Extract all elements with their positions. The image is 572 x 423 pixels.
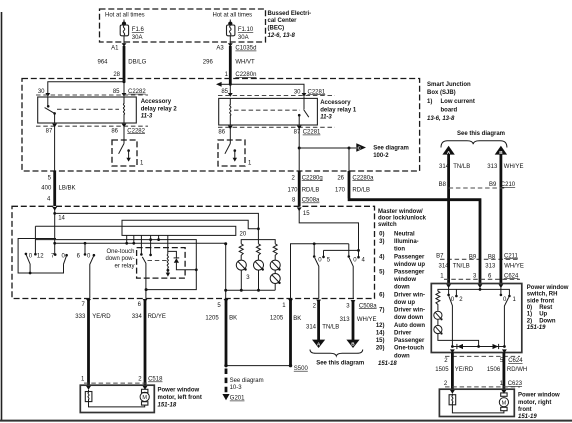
svg-text:See diagram: See diagram	[373, 145, 409, 151]
pin6 exit arrow	[143, 299, 148, 303]
arrow A (from other diagram)	[442, 146, 454, 155]
svg-text:2): 2)	[527, 318, 532, 324]
svg-text:side front: side front	[527, 298, 554, 304]
svg-text:314: 314	[306, 325, 317, 331]
svg-text:13-6, 13-8: 13-6, 13-8	[427, 116, 455, 122]
pin7 exit arrow	[86, 299, 91, 303]
svg-text:(BEC): (BEC)	[268, 26, 285, 32]
svg-text:TN/LB: TN/LB	[322, 325, 339, 331]
svg-text:C2280n: C2280n	[235, 72, 256, 78]
svg-text:RD/LB: RD/LB	[302, 187, 320, 193]
svg-text:cal Center: cal Center	[268, 18, 298, 24]
svg-text:B: B	[499, 150, 503, 155]
svg-text:TN/LB: TN/LB	[453, 264, 470, 270]
relay2 solid state box	[112, 140, 144, 167]
svg-text:BK: BK	[293, 316, 301, 322]
svg-text:C2282: C2282	[128, 89, 146, 95]
wire switch1 contact feed	[35, 225, 122, 227]
resistor branch 1	[236, 244, 250, 292]
one-touch relay link dashed	[148, 260, 168, 262]
svg-text:LB/BK: LB/BK	[59, 186, 76, 192]
connector line C624 top	[444, 278, 520, 280]
svg-text:See this diagram: See this diagram	[457, 131, 505, 137]
svg-text:WH/VT: WH/VT	[235, 59, 255, 65]
svg-text:Passenger: Passenger	[394, 270, 425, 276]
wires C211 to C624	[438, 253, 523, 284]
svg-text:314: 314	[438, 264, 449, 270]
svg-text:Bussed Electri-: Bussed Electri-	[268, 11, 312, 17]
master window switch dashed box	[12, 206, 375, 298]
connector row C211	[436, 253, 520, 260]
svg-text:85: 85	[113, 89, 120, 95]
motor left M	[140, 389, 149, 405]
arrow A (to other diagram)	[312, 340, 325, 348]
svg-text:A3: A3	[216, 46, 224, 52]
motor left circuit breaker	[85, 390, 92, 402]
svg-text:86: 86	[218, 130, 225, 136]
svg-text:Accessory: Accessory	[320, 100, 351, 106]
svg-text:151-18: 151-18	[378, 361, 397, 367]
svg-text:Neutral: Neutral	[394, 231, 415, 237]
relay1 coil	[230, 98, 231, 125]
svg-text:Passenger: Passenger	[394, 338, 425, 344]
svg-text:Power window: Power window	[527, 285, 569, 291]
one-touch relay dashed box	[137, 248, 186, 279]
svg-text:C624: C624	[504, 273, 519, 279]
svg-text:170: 170	[335, 187, 346, 193]
wire 1505 YE/RD	[435, 353, 474, 390]
svg-text:C623: C623	[508, 381, 523, 387]
svg-text:TN/LB: TN/LB	[453, 164, 470, 170]
svg-text:15: 15	[303, 211, 310, 217]
svg-text:door lock/unlock: door lock/unlock	[378, 216, 427, 222]
svg-text:85: 85	[221, 89, 228, 95]
LED rail	[241, 240, 275, 244]
one-touch relay diode loop	[168, 251, 197, 269]
svg-text:Driver win-: Driver win-	[394, 292, 425, 298]
svg-text:C211: C211	[504, 253, 519, 259]
svg-text:1): 1)	[527, 312, 532, 318]
svg-text:313: 313	[340, 317, 351, 323]
svg-text:12): 12)	[376, 323, 385, 329]
svg-text:delay relay 1: delay relay 1	[320, 107, 357, 113]
svg-text:15): 15)	[376, 338, 385, 344]
svg-text:er relay: er relay	[114, 264, 134, 270]
arrow B (from other diagram)	[495, 146, 507, 155]
svg-text:28: 28	[113, 72, 120, 78]
power window switch RH box	[431, 284, 522, 353]
svg-text:Up: Up	[539, 312, 547, 318]
RH diode line	[451, 345, 506, 348]
relay1 solid state box	[218, 140, 252, 167]
pin1 BK column and rest rail	[291, 242, 349, 298]
svg-text:C210: C210	[501, 182, 516, 188]
wire fuse2 to relay1 pin30	[230, 84, 326, 97]
brace see this diagram (bottom)	[310, 350, 363, 357]
svg-text:0): 0)	[527, 305, 532, 311]
svg-text:down: down	[394, 353, 410, 359]
svg-text:30A: 30A	[238, 35, 249, 41]
LED ground rail	[226, 289, 276, 291]
label power window motor left front	[158, 388, 202, 409]
motor right internal wire	[452, 405, 504, 413]
svg-text:Power window: Power window	[158, 388, 200, 394]
arrow B (to other diagram)	[346, 340, 359, 348]
svg-text:151-18: 151-18	[158, 402, 177, 408]
svg-text:333: 333	[75, 314, 86, 320]
svg-text:WH/YE: WH/YE	[357, 317, 377, 323]
svg-text:C2282: C2282	[127, 128, 145, 134]
svg-text:0): 0)	[379, 231, 384, 237]
power window motor right front box	[439, 389, 514, 416]
svg-text:Accessory: Accessory	[141, 99, 172, 105]
ground lead to G201	[222, 369, 263, 402]
wire 313 WH/YE (B down to C211)	[487, 155, 523, 253]
pin4 entry arrow	[52, 207, 57, 211]
svg-text:Driver win-: Driver win-	[394, 308, 425, 314]
svg-text:YE/RD: YE/RD	[455, 367, 474, 373]
pin3 exit arrow	[351, 300, 356, 304]
relay2 link dashed	[57, 108, 119, 110]
svg-text:313: 313	[485, 264, 496, 270]
svg-text:170: 170	[287, 187, 298, 193]
switch 3 (driver up 6/0)	[77, 243, 96, 298]
svg-text:board: board	[441, 108, 458, 114]
plate stubs	[127, 235, 168, 254]
svg-text:B8: B8	[439, 182, 447, 188]
svg-text:C2280g: C2280g	[302, 175, 323, 181]
svg-text:6): 6)	[379, 292, 384, 298]
accessory delay relay 2 box	[38, 97, 137, 123]
svg-text:7): 7)	[379, 308, 384, 314]
svg-text:20: 20	[240, 231, 247, 237]
svg-text:window up: window up	[393, 262, 425, 268]
svg-text:A1: A1	[111, 46, 119, 52]
svg-text:C508a: C508a	[359, 303, 377, 309]
connector row C2281 top	[218, 95, 335, 97]
wire relay1 pin85 tee with left arrow	[216, 82, 232, 95]
svg-text:Driver: Driver	[394, 331, 412, 337]
svg-text:BK: BK	[229, 316, 237, 322]
label power window motor right front	[518, 393, 560, 421]
connector line C623	[445, 386, 520, 388]
svg-text:4): 4)	[379, 254, 384, 260]
wire 170 RD/LB C2280g down to master pin15	[287, 148, 322, 207]
RH switch left (0/2)	[447, 288, 463, 347]
svg-text:window: window	[393, 277, 416, 283]
motor right M	[499, 393, 508, 411]
node relay1-87 junction	[298, 147, 301, 150]
motor right entry arrows	[450, 390, 455, 394]
wire fuse1 to relay2 pin30	[38, 80, 126, 97]
fuse F1.10 30A	[227, 20, 254, 43]
svg-text:151-19: 151-19	[518, 414, 537, 420]
relay2 pin86 exit	[111, 124, 145, 144]
svg-text:Power window: Power window	[518, 393, 560, 399]
svg-text:1505: 1505	[435, 367, 449, 373]
relay2 coil	[123, 97, 124, 123]
contact plate outer lid	[122, 220, 258, 229]
svg-text:400: 400	[41, 186, 52, 192]
svg-text:1205: 1205	[205, 316, 219, 322]
pin5 exit arrow	[224, 299, 229, 303]
pin1 exit arrow	[288, 299, 293, 303]
svg-text:switch: switch	[378, 222, 397, 228]
svg-text:See this diagram: See this diagram	[316, 361, 364, 367]
contact plate inner	[122, 226, 236, 235]
RH resistor	[436, 291, 440, 311]
power distribution line	[55, 242, 226, 245]
svg-text:C1035d: C1035d	[235, 46, 256, 52]
connector line C518	[84, 382, 147, 384]
label Bussed Electrical Center (BEC)	[268, 11, 312, 39]
svg-text:10-3: 10-3	[230, 385, 243, 391]
one-touch relay contact and blade	[140, 253, 152, 298]
label one-touch down power relay	[105, 249, 134, 270]
wire 964 DB/LG from F1.6	[97, 42, 146, 97]
switch 2 (driver down 7/0)	[51, 254, 68, 265]
svg-text:C518: C518	[148, 377, 163, 383]
svg-text:Master window/: Master window/	[378, 209, 423, 215]
svg-text:Auto down: Auto down	[394, 323, 425, 329]
svg-text:G201: G201	[230, 396, 245, 402]
pin15 entry arrow	[297, 207, 302, 211]
svg-text:F1.10: F1.10	[238, 27, 254, 33]
ground distribution line	[35, 238, 197, 291]
svg-text:B9: B9	[489, 182, 497, 188]
wire 1205 BK right	[270, 299, 301, 366]
svg-text:delay relay 2: delay relay 2	[141, 106, 178, 112]
wire 296 WH/VT from F1.10	[203, 42, 257, 97]
svg-text:11-3: 11-3	[320, 115, 332, 121]
resistor branch 2 LED	[254, 244, 264, 292]
svg-text:F1.6: F1.6	[132, 27, 145, 33]
svg-text:Rest: Rest	[539, 305, 552, 311]
relay2 switch contact	[45, 97, 56, 124]
svg-text:Passenger: Passenger	[394, 254, 425, 260]
svg-text:dow down: dow down	[394, 315, 424, 321]
svg-text:100-2: 100-2	[373, 153, 389, 159]
svg-text:Box (SJB): Box (SJB)	[427, 90, 456, 96]
svg-text:30A: 30A	[132, 35, 143, 41]
relay1 link dashed	[234, 109, 300, 111]
wire 334 RD/YE	[132, 299, 166, 385]
RH LED 1	[434, 311, 443, 320]
fuse F1.6 30A	[120, 20, 144, 43]
label Smart Junction Box (SJB)	[427, 82, 475, 122]
svg-text:14: 14	[58, 215, 65, 221]
svg-text:5): 5)	[379, 270, 384, 276]
switch bank box	[18, 239, 63, 274]
svg-text:14): 14)	[376, 331, 385, 337]
motor left internal wire	[89, 402, 145, 407]
svg-text:M: M	[502, 401, 507, 407]
svg-text:151-19: 151-19	[527, 325, 546, 331]
label Accessory delay relay 1	[320, 100, 357, 120]
wire 314 TN/LB (A down to C211)	[439, 155, 471, 253]
svg-text:switch, RH: switch, RH	[527, 292, 558, 298]
svg-text:One-touch: One-touch	[106, 249, 134, 255]
svg-text:1506: 1506	[487, 367, 501, 373]
RH switch right (0/1)	[500, 288, 517, 347]
svg-text:DB/LG: DB/LG	[128, 59, 146, 65]
svg-text:86: 86	[111, 128, 118, 134]
relay1 switch contact	[298, 97, 309, 126]
label Master window door lock/unlock switch	[376, 209, 427, 367]
svg-text:motor, left front: motor, left front	[158, 395, 202, 401]
RH exit arrows	[450, 349, 455, 353]
wire 333 YE/RD	[75, 299, 111, 385]
power window motor left front box	[80, 385, 154, 412]
switch A (passenger 0/5)	[313, 244, 331, 299]
svg-text:30: 30	[38, 89, 45, 95]
svg-text:RD/WH: RD/WH	[507, 367, 527, 373]
svg-text:C2280a: C2280a	[352, 175, 374, 181]
wire 314 TN/LB to arrow A	[306, 300, 339, 340]
svg-text:dow up: dow up	[394, 300, 415, 306]
connector row C2282 bottom	[36, 125, 148, 127]
svg-text:Low current: Low current	[441, 99, 475, 105]
svg-text:Smart Junction: Smart Junction	[427, 82, 471, 88]
wire 313 WH/YE to arrow B	[340, 300, 378, 340]
pin2 exit arrow	[316, 300, 321, 304]
svg-text:C508a: C508a	[302, 198, 320, 204]
Smart Junction Box dashed outline	[22, 79, 420, 172]
RH diode right (points right)	[493, 344, 499, 349]
svg-text:C2281: C2281	[303, 130, 321, 136]
svg-text:WH/YE: WH/YE	[504, 164, 524, 170]
page bottom border	[0, 420, 572, 422]
svg-text:313: 313	[487, 164, 498, 170]
bracket over A B	[441, 141, 507, 148]
svg-text:964: 964	[97, 59, 108, 65]
svg-text:3): 3)	[379, 239, 384, 245]
svg-text:motor, right: motor, right	[518, 400, 551, 406]
switch B (passenger 0/4)	[348, 244, 366, 299]
connector row C2281 bottom	[218, 126, 335, 128]
svg-text:26: 26	[337, 175, 344, 181]
svg-text:C624: C624	[508, 358, 523, 364]
svg-text:296: 296	[203, 59, 214, 65]
connector line C210	[449, 187, 505, 189]
svg-text:12: 12	[37, 254, 44, 260]
RH LED 2	[434, 320, 479, 347]
power jog from pin15	[299, 210, 360, 259]
page left border	[1, 12, 3, 420]
svg-text:Hot at all times: Hot at all times	[105, 13, 145, 19]
wire pin4 column	[53, 210, 56, 256]
Bussed Electrical Center box	[100, 9, 266, 42]
svg-text:RD/LB: RD/LB	[352, 187, 370, 193]
svg-text:Down: Down	[539, 318, 556, 324]
one-touch relay coil	[166, 254, 170, 276]
wire 1506 RD/WH	[487, 353, 527, 390]
svg-text:M: M	[142, 395, 147, 401]
svg-text:RD/YE: RD/YE	[148, 314, 166, 320]
RH power rail	[438, 287, 511, 297]
resistor branch 3 double LED	[270, 244, 280, 290]
label power window switch RH	[527, 285, 569, 331]
svg-text:87: 87	[294, 130, 301, 136]
svg-text:B7: B7	[436, 253, 444, 259]
svg-text:down: down	[394, 285, 410, 291]
svg-text:12-6, 13-8: 12-6, 13-8	[268, 33, 296, 39]
svg-text:front: front	[518, 407, 532, 413]
label Accessory delay relay 2	[141, 99, 178, 119]
svg-text:1205: 1205	[270, 316, 284, 322]
splice S500	[224, 364, 308, 372]
pin5 BK column inside	[224, 242, 227, 298]
svg-text:YE/RD: YE/RD	[92, 314, 111, 320]
svg-text:20): 20)	[376, 346, 385, 352]
illumination feed pin20	[257, 240, 259, 244]
wire 170 RD/LB C2280a to right	[335, 148, 481, 253]
svg-text:30: 30	[294, 89, 301, 95]
connector row C2282 top	[36, 94, 148, 96]
svg-text:11-3: 11-3	[141, 114, 153, 120]
svg-text:C2281: C2281	[308, 89, 326, 95]
svg-text:334: 334	[132, 314, 143, 320]
svg-text:One-touch: One-touch	[394, 346, 424, 352]
svg-text:WH/YE: WH/YE	[504, 264, 524, 270]
RH diode left (points left)	[457, 344, 463, 349]
RH entry arrows	[446, 284, 451, 288]
relay2 pin87 exit	[46, 124, 57, 171]
switch 1 (auto down 0/12)	[25, 253, 45, 275]
svg-text:down pow-: down pow-	[105, 256, 134, 262]
svg-text:Hot at all times: Hot at all times	[213, 13, 253, 19]
relay1 pin87 exit	[294, 126, 321, 148]
svg-text:Illumina-: Illumina-	[394, 239, 419, 245]
motor left entry arrows	[86, 386, 91, 390]
svg-text:314: 314	[439, 164, 450, 170]
svg-text:1): 1)	[427, 99, 432, 105]
relay1 pin86 exit	[218, 126, 232, 144]
connector line C624 bottom	[444, 356, 523, 364]
accessory delay relay 1 box	[219, 98, 318, 125]
wire 1205 BK left	[205, 299, 237, 366]
svg-text:tion: tion	[394, 247, 405, 253]
svg-text:S500: S500	[294, 366, 309, 372]
wire relay2-87 down to master pin4	[41, 171, 75, 207]
motor right circuit breaker	[449, 394, 456, 405]
wire to see-diagram 100-2	[299, 143, 409, 159]
svg-text:87: 87	[46, 128, 53, 134]
svg-text:See diagram: See diagram	[230, 378, 264, 384]
wire 14 line	[55, 213, 260, 239]
